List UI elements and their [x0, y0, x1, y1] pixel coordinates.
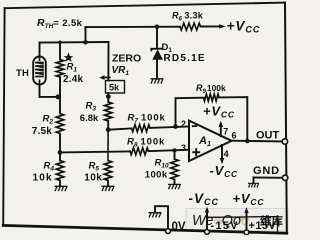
thermistor TH body [33, 57, 46, 85]
junction node VR1/R3 [106, 94, 111, 99]
thermistor TH element [35, 57, 44, 84]
wire R4 leads [59, 152, 61, 160]
svg-text:-15V: -15V [211, 220, 239, 232]
wire R1 bottom lead [59, 77, 61, 97]
wire -15V box top edge [207, 216, 247, 218]
junction node bridge top-left stub [83, 40, 88, 45]
svg-text:R7100k: R7100k [128, 113, 166, 125]
resistor R4 [56, 161, 64, 181]
resistor R10 [171, 159, 179, 180]
resistor R7 [132, 125, 151, 132]
wire GND terminal to ground [254, 177, 283, 183]
resistor R9 [204, 94, 220, 101]
svg-text:R8100k: R8100k [127, 137, 165, 149]
wire supply rail left of R6 [86, 26, 181, 28]
svg-text:10k: 10k [33, 172, 53, 183]
op-amp U A1 [189, 121, 232, 161]
junction node TH/R1 [56, 94, 61, 99]
junction node R10 tap [172, 148, 176, 152]
potentiometer VR1 wiper [103, 76, 111, 78]
wire VR1 to R3 [107, 93, 109, 102]
svg-text:6.8k: 6.8k [80, 113, 99, 124]
resistor R2 [56, 114, 64, 134]
arrowhead -15V [205, 207, 209, 213]
svg-text:5k: 5k [109, 83, 120, 93]
ground under R5 [102, 186, 115, 191]
wire R8 left [60, 151, 130, 152]
junction node R2/R4/R8 [58, 150, 63, 155]
zener D1 cathode bar [151, 49, 163, 52]
wire bridge top [40, 41, 109, 44]
wire zener top lead [156, 27, 158, 49]
wire pin7 supply [220, 124, 222, 136]
wire thermistor bottom lead [40, 85, 61, 97]
svg-text:OUT: OUT [256, 129, 280, 141]
terminal -15V [205, 230, 210, 235]
wire R7 left [108, 128, 131, 129]
svg-text:7.5k: 7.5k [32, 126, 53, 137]
zener D1 triangle [152, 49, 163, 59]
potentiometer VR1 wiper arrowhead [99, 75, 104, 80]
svg-text:10k: 10k [84, 172, 102, 183]
wire VR1 top lead [107, 42, 109, 81]
wire R2 top lead [59, 97, 61, 114]
svg-text:RD5.1E: RD5.1E [164, 53, 206, 64]
ground under R10 [168, 184, 181, 189]
wire thermistor top lead [39, 43, 41, 57]
svg-text:GND: GND [253, 165, 280, 177]
svg-text:2: 2 [181, 119, 186, 129]
frame border left [3, 8, 4, 225]
svg-text:+15V: +15V [249, 220, 277, 232]
resistor R3 [104, 102, 112, 121]
wire zener bottom lead [156, 60, 158, 79]
svg-text:RTH= 2.5k: RTH= 2.5k [37, 17, 83, 30]
junction node feedback/pin2 [173, 124, 178, 129]
svg-text:7: 7 [223, 126, 228, 136]
resistor R6 [180, 23, 201, 30]
wire R10 leads [174, 150, 176, 159]
op-amp plus [192, 151, 200, 153]
wire R1 top lead [59, 42, 61, 59]
wire R5 bottom lead [107, 181, 109, 187]
wire R3 bottom lead [107, 121, 109, 130]
svg-text:4: 4 [224, 149, 229, 159]
wire -15V lead [206, 211, 208, 231]
op-amp minus [192, 125, 197, 127]
wire feedback left [176, 98, 204, 127]
terminal GND [282, 175, 287, 180]
wire R2 bottom lead [59, 134, 61, 153]
arrowhead +15V [244, 207, 248, 213]
resistor R5 [104, 161, 112, 181]
watermark faint box [186, 209, 288, 232]
wire R5 top lead [107, 130, 109, 161]
frame border top [5, 3, 285, 9]
ground 0V terminal [149, 213, 162, 218]
wire feedback right [219, 97, 247, 141]
wire R8 to pin3 [149, 150, 190, 152]
arrowhead +Vcc top [219, 24, 226, 28]
resistor R8 [130, 148, 149, 155]
ground under R4 [55, 186, 68, 191]
junction node zener tap [155, 25, 160, 30]
watermark WeeQoo [192, 213, 283, 229]
star mark [64, 52, 74, 62]
wire stub to supply rail [85, 27, 87, 42]
resistor R1 [56, 60, 64, 78]
svg-text:2.4k: 2.4k [63, 74, 84, 85]
wire 0V terminal lead [155, 206, 168, 230]
terminal +15V [244, 230, 249, 235]
frame border bottom [3, 225, 287, 233]
wire supply rail right of R6 [201, 25, 221, 27]
wire +15V lead [246, 211, 248, 231]
terminal OUT [282, 139, 287, 144]
svg-text:0V: 0V [172, 221, 186, 233]
wire op-amp output to OUT [232, 140, 283, 143]
wire +15V box top edge [247, 216, 278, 218]
arrowhead pin7 [219, 121, 224, 127]
potentiometer VR1 box [106, 81, 125, 94]
svg-text:3: 3 [181, 143, 186, 153]
svg-text:6: 6 [232, 130, 237, 140]
wire +15V box right edge [277, 217, 279, 233]
junction node feedback/output [245, 139, 250, 144]
svg-text:ZERO: ZERO [112, 53, 141, 65]
wire R7 to pin2 [150, 127, 189, 128]
junction node R3/R5/R7 [106, 127, 111, 132]
svg-text:100k: 100k [145, 169, 168, 180]
frame border right [285, 3, 287, 234]
svg-text:TH: TH [16, 68, 29, 79]
junction node R1 top [58, 41, 62, 45]
ground GND terminal [248, 183, 259, 187]
ground under D1 [151, 79, 164, 84]
terminal 0V [166, 229, 171, 234]
wire pin4 supply [221, 145, 223, 161]
arrowhead pin4 [220, 158, 225, 164]
